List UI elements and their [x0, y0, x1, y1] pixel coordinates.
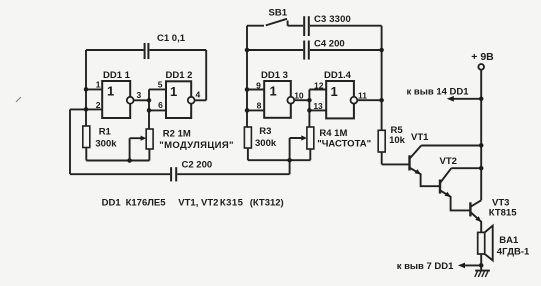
ground: [475, 265, 490, 270]
arrowhead VT3 emitter: [475, 216, 481, 222]
resistor R1: [83, 126, 90, 148]
junction dots: [84, 87, 89, 92]
svg-text:VT2: VT2: [440, 156, 457, 167]
resistor R4: [307, 127, 314, 149]
transistor VT2: [439, 180, 441, 194]
svg-text:6: 6: [158, 100, 163, 110]
wire R2 wiper: [130, 138, 142, 160]
wire pin 8: [247, 109, 264, 111]
wire pin 5: [149, 88, 166, 90]
svg-text:К176ЛЕ5: К176ЛЕ5: [126, 198, 167, 209]
svg-text:VT1: VT1: [411, 132, 429, 143]
svg-text:к выв 7 DD1: к выв 7 DD1: [397, 261, 454, 272]
svg-text:4ГДВ-1: 4ГДВ-1: [497, 247, 530, 258]
capacitor C2: [171, 167, 176, 181]
wire C3 right: [310, 25, 382, 27]
svg-text:8: 8: [257, 101, 262, 111]
svg-text:1: 1: [170, 84, 177, 99]
wire arrow 14: [452, 98, 481, 100]
wire pin 1: [86, 88, 102, 90]
svg-text:10: 10: [294, 91, 304, 101]
svg-text:300k: 300k: [255, 138, 277, 149]
svg-text:к выв 14 DD1: к выв 14 DD1: [407, 87, 470, 98]
transistor VT3: [469, 202, 471, 216]
wire pin 3: [134, 99, 149, 101]
svg-text:DD1 3: DD1 3: [261, 70, 288, 81]
wire R5 to VT1 base: [382, 152, 410, 164]
wire arrow 7: [462, 264, 481, 266]
wire R3 bottom: [247, 148, 249, 160]
arrowhead R4 wiper: [301, 135, 307, 140]
inverter bubble DD1.2: [188, 97, 195, 104]
svg-text:"МОДУЛЯЦИЯ": "МОДУЛЯЦИЯ": [159, 140, 234, 151]
resistor R2: [146, 129, 153, 149]
wire C4 right: [310, 49, 382, 51]
capacitor C1: [145, 43, 149, 59]
wire C2 jog up: [289, 160, 291, 174]
svg-text:SB1: SB1: [269, 8, 288, 19]
svg-text:4: 4: [196, 90, 201, 100]
transistor VT1: [408, 155, 410, 170]
wire middle right vertical: [381, 26, 383, 131]
wire top C1 left: [86, 49, 144, 51]
svg-text:1: 1: [270, 84, 277, 99]
stray scan mark: [16, 97, 21, 102]
svg-text:КТ815: КТ815: [489, 208, 517, 219]
speaker BA1: [478, 232, 485, 254]
svg-text:1: 1: [331, 84, 338, 99]
wire R4 bottom: [309, 149, 311, 160]
resistor R5: [378, 130, 385, 152]
op-amp DD1.3 body: [264, 81, 291, 118]
svg-text:1: 1: [107, 84, 114, 99]
resistor R3: [244, 127, 251, 148]
wire speaker bottom: [480, 254, 482, 265]
capacitor C3: [304, 16, 309, 36]
svg-text:1: 1: [96, 80, 101, 90]
wire pin 13: [309, 109, 326, 111]
svg-text:C3 3300: C3 3300: [314, 14, 351, 25]
op-amp DD1.1 body: [102, 81, 130, 118]
wire C2 right: [177, 173, 289, 175]
wire R2 bottom: [148, 149, 150, 161]
wire DD1.4 input vertical: [308, 90, 310, 128]
capacitor C4: [304, 41, 309, 60]
svg-text:C1 0,1: C1 0,1: [157, 33, 186, 44]
svg-text:"ЧАСТОТА": "ЧАСТОТА": [317, 139, 371, 150]
svg-text:(КТ312): (КТ312): [250, 198, 284, 209]
svg-text:R4 1М: R4 1М: [319, 128, 347, 139]
wire C1 right vertical: [205, 50, 207, 100]
arrowhead to pin 7: [458, 263, 465, 269]
inverter bubble DD1.3: [287, 97, 294, 104]
svg-text:11: 11: [358, 91, 367, 101]
svg-text:13: 13: [313, 101, 323, 111]
svg-text:DD1: DD1: [102, 198, 122, 209]
switch SB1: [247, 19, 303, 26]
arrowhead to pin 14: [447, 96, 454, 102]
op-amp DD1.2 body: [166, 81, 191, 118]
wire bottom node 2: [248, 159, 311, 161]
wire R1 bottom: [85, 148, 87, 161]
svg-text:C2 200: C2 200: [182, 160, 213, 171]
arrowhead VT1 emitter: [415, 169, 421, 174]
op-amp DD1.4 body: [326, 81, 354, 118]
svg-text:12: 12: [314, 80, 324, 90]
svg-text:R2 1М: R2 1М: [163, 129, 191, 140]
terminal +9V: [478, 64, 484, 70]
wire left outer vertical: [69, 109, 71, 174]
inverter bubble DD1.1: [127, 97, 134, 104]
wire top C1 right: [149, 49, 206, 51]
wire +9V vertical: [480, 70, 482, 201]
wire bottom node 1: [86, 160, 149, 162]
wire pin 11: [357, 99, 381, 101]
arrowhead VT2 emitter: [445, 192, 451, 197]
wire R4 wiper: [290, 138, 303, 160]
svg-text:DD1.4: DD1.4: [324, 70, 352, 81]
svg-text:+ 9В: + 9В: [471, 51, 494, 63]
wire DD1.2 input vertical: [148, 89, 150, 129]
svg-text:300k: 300k: [95, 139, 117, 150]
svg-text:VT1, VT2: VT1, VT2: [178, 198, 218, 209]
svg-text:C4 200: C4 200: [314, 38, 345, 49]
wire middle left vertical: [246, 26, 248, 127]
svg-text:9: 9: [256, 81, 261, 91]
wire C4 left: [247, 49, 303, 51]
arrowhead R2 wiper: [141, 136, 147, 141]
wire pin 10: [294, 99, 309, 101]
svg-text:R3: R3: [259, 126, 271, 137]
wire pin 9: [247, 89, 264, 91]
svg-text:3: 3: [137, 90, 142, 100]
svg-text:К315: К315: [220, 198, 244, 209]
wire pin 2: [70, 108, 102, 110]
svg-text:10k: 10k: [389, 135, 406, 146]
inverter bubble DD1.4: [351, 97, 358, 104]
wire left vertical pin1: [85, 50, 87, 126]
wire C2 left: [70, 173, 170, 175]
wire pin 4: [195, 99, 207, 101]
svg-text:R1: R1: [99, 127, 112, 138]
svg-text:2: 2: [96, 100, 101, 110]
wire pin 6: [149, 109, 166, 111]
svg-text:5: 5: [158, 80, 163, 90]
svg-text:DD1 2: DD1 2: [166, 70, 193, 81]
wire pin 12: [309, 89, 326, 91]
svg-text:BA1: BA1: [499, 235, 519, 246]
svg-text:DD1 1: DD1 1: [103, 70, 131, 81]
